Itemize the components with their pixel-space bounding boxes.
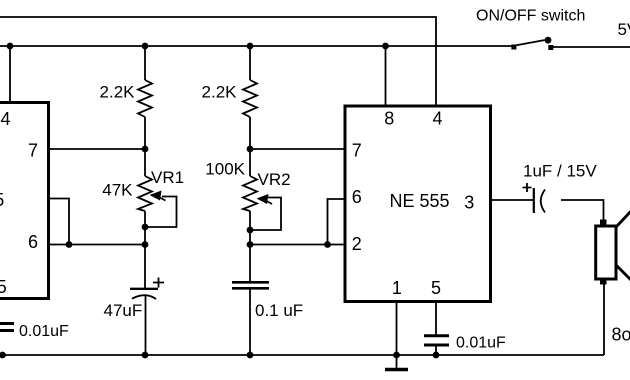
svg-text:8: 8	[384, 109, 394, 129]
node: R1 / VR1 / pin 7	[142, 146, 149, 153]
speaker LS1 body	[596, 226, 616, 279]
node: rail B / NE555 pin 8	[382, 43, 389, 50]
speaker LS1 cone upper edge	[617, 209, 630, 227]
node: rail B / R1	[142, 43, 149, 50]
node: VR1 bottom / pin 6 line	[142, 241, 149, 248]
capacitor C4 0.01uF at NE555 pin 5	[424, 334, 449, 337]
wire left IC loop pin to pin6 line	[48, 199, 69, 245]
capacitor C5 1uF/15V electrolytic: straight plate	[533, 188, 535, 213]
svg-text:ON/OFF switch: ON/OFF switch	[476, 7, 585, 24]
svg-text:6: 6	[28, 232, 38, 252]
speaker LS1 top terminal	[600, 220, 607, 226]
svg-text:5V: 5V	[618, 20, 630, 39]
wire VR2 node to NE555 pin 7	[250, 148, 344, 150]
wire 0.1uF to ground rail	[249, 290, 251, 356]
potentiometer VR1 47K body	[138, 176, 152, 211]
C5 curved plate	[541, 190, 545, 213]
wire R2 top lead	[249, 46, 251, 80]
node: ground rail / 47uF	[142, 352, 149, 359]
node: NE555 pin6 loop / pin 2 line	[324, 241, 331, 248]
VR1 wiper loop wire	[145, 197, 177, 228]
speaker LS1 bottom terminal	[600, 279, 607, 285]
svg-text:NE 555: NE 555	[0, 190, 4, 210]
VR2 wiper shaft	[263, 199, 272, 204]
VR1 wiper shaft	[156, 196, 166, 201]
capacitor C1 47uF electrolytic: straight plate	[130, 288, 158, 290]
wire 5V rail (left of switch)	[0, 45, 512, 47]
svg-text:VR1: VR1	[151, 168, 184, 187]
svg-text:4: 4	[1, 109, 11, 129]
resistor R2 2.2K	[243, 80, 257, 117]
node: rail B / left IC pin 4	[7, 43, 14, 50]
node: rail B / R2	[247, 43, 254, 50]
svg-text:0.01uF: 0.01uF	[456, 335, 506, 352]
wire VR2 bottom to 0.1uF	[249, 211, 251, 281]
resistor R1 2.2K	[138, 80, 152, 117]
wire top rail to NE555 pin 4	[0, 17, 436, 105]
wire NE555 pin 8 stub	[385, 46, 387, 105]
wire R1 to VR1	[144, 117, 146, 176]
wire NE555 pin 1 to ground rail	[396, 302, 398, 355]
node: ground rail / 0.1uF	[247, 352, 254, 359]
svg-text:4: 4	[432, 109, 442, 129]
speaker LS1 cone lower edge	[617, 266, 630, 283]
ground symbol	[396, 355, 398, 368]
svg-text:1: 1	[392, 278, 402, 298]
wire R1 top lead	[144, 46, 146, 80]
wire NE555 pin 5 to 0.01uF	[435, 302, 437, 335]
wire left IC pin 4 stub	[9, 46, 11, 102]
svg-text:6: 6	[352, 187, 362, 207]
capacitor C3 0.01uF (left edge, leads off-canvas)	[0, 322, 14, 325]
wire 1uF cap to speaker	[561, 200, 604, 221]
svg-text:2.2K: 2.2K	[100, 83, 136, 102]
VR2 wiper arrow head	[257, 194, 269, 204]
svg-text:0.01uF: 0.01uF	[19, 323, 69, 340]
wire speaker bottom to ground rail	[603, 284, 605, 356]
IC U1 (left 555, partially off-canvas)	[0, 103, 49, 299]
node: VR2 loop bottom	[247, 227, 254, 234]
switch S1 lever	[515, 40, 545, 46]
node: ground rail / NE555 pin 1	[393, 352, 400, 359]
wire 47uF to ground rail	[145, 295, 147, 356]
wire 5V rail (right of switch)	[553, 46, 630, 48]
wire ground rail	[0, 354, 604, 356]
node: left IC loop / pin 6 line	[66, 241, 73, 248]
wire R2 to VR2	[249, 117, 251, 176]
svg-text:2: 2	[352, 234, 362, 254]
wire 0.01uF to ground rail	[435, 346, 437, 355]
node: ground rail left end	[0, 352, 6, 359]
wire NE555 pin 3 to 1uF cap	[492, 199, 534, 201]
C1 plus sign	[153, 278, 164, 288]
wire NE555 pin 6 loop	[328, 199, 345, 245]
node: VR1 loop bottom	[142, 224, 149, 231]
wire left IC pin 7 to VR1 node	[48, 148, 145, 150]
svg-text:NE 555: NE 555	[390, 191, 450, 211]
svg-text:5: 5	[431, 278, 441, 298]
wire VR2 bottom to NE555 pin 2	[250, 244, 344, 246]
capacitor C2 0.1uF plates	[232, 281, 269, 284]
potentiometer VR2 100K body	[243, 176, 257, 211]
switch S1 pivot ball	[545, 37, 552, 44]
svg-text:7: 7	[352, 140, 362, 160]
C1 curved plate	[132, 295, 156, 299]
svg-text:47uF: 47uF	[104, 301, 143, 320]
svg-text:47K: 47K	[102, 181, 133, 200]
svg-text:5: 5	[0, 277, 7, 297]
wire VR1 bottom to 47uF	[144, 211, 146, 288]
svg-text:0.1 uF: 0.1 uF	[255, 301, 303, 320]
svg-text:3: 3	[464, 193, 474, 213]
wire left IC pin 6 to VR1 bottom	[48, 244, 145, 246]
svg-text:VR2: VR2	[258, 170, 291, 189]
IC U2 NE 555	[345, 106, 491, 302]
VR1 wiper arrow head	[150, 191, 162, 201]
switch S1 right contact	[548, 45, 553, 50]
svg-text:7: 7	[28, 140, 38, 160]
svg-text:1uF / 15V: 1uF / 15V	[523, 162, 597, 181]
svg-text:2.2K: 2.2K	[202, 83, 238, 102]
node: R2 / VR2 / NE555 pin 7	[247, 146, 254, 153]
VR2 wiper loop wire	[250, 198, 281, 231]
node: VR2 bottom / pin 2 line	[247, 241, 254, 248]
C5 plus sign	[523, 183, 532, 192]
svg-text:8ohm: 8ohm	[612, 325, 630, 345]
switch S1 left contact	[511, 45, 516, 50]
svg-text:100K: 100K	[205, 160, 245, 179]
node: ground rail / 0.01uF	[433, 352, 440, 359]
